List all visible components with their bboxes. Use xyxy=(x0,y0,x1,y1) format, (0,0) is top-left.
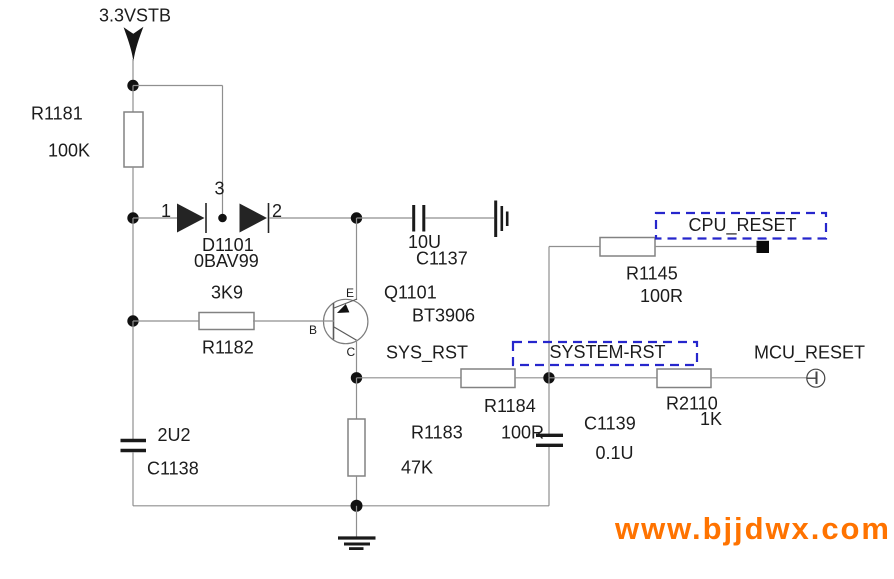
wire corner to R1145 xyxy=(549,246,600,248)
svg-text:47K: 47K xyxy=(401,458,433,478)
wire node D to C1138 xyxy=(132,321,134,439)
svg-text:C1137: C1137 xyxy=(416,249,468,269)
wire D1101 cathode to node C xyxy=(269,217,357,219)
svg-text:100R: 100R xyxy=(640,286,683,306)
svg-text:R1182: R1182 xyxy=(202,338,254,358)
svg-text:CPU_RESET: CPU_RESET xyxy=(689,215,797,236)
wire node A to R1181 xyxy=(132,86,134,113)
node B junction dot xyxy=(127,212,138,223)
wire R1183 to ground node xyxy=(356,476,358,506)
transistor Q1101 xyxy=(324,299,368,344)
ground bottom xyxy=(338,538,376,549)
svg-text:BT3906: BT3906 xyxy=(412,306,475,326)
net label box SYSTEM-RST xyxy=(513,342,697,365)
svg-text:E: E xyxy=(346,286,354,300)
svg-text:SYSTEM-RST: SYSTEM-RST xyxy=(550,342,666,362)
capacitor C1139 xyxy=(536,435,563,445)
svg-text:100K: 100K xyxy=(48,141,90,161)
wire C1137 to ground xyxy=(426,217,495,219)
diode D1101A xyxy=(177,203,206,233)
svg-text:0BAV99: 0BAV99 xyxy=(194,251,259,271)
net label box CPU_RESET xyxy=(656,213,826,239)
resistor R1182 xyxy=(199,313,254,330)
svg-text:R1145: R1145 xyxy=(626,264,678,284)
wire node C to Q1101 emitter xyxy=(356,218,358,300)
wire to ground symbol xyxy=(356,506,358,537)
node D1101 pin3 dot xyxy=(218,214,227,223)
svg-text:1K: 1K xyxy=(700,409,722,429)
svg-text:C: C xyxy=(347,345,356,359)
node D junction dot xyxy=(127,315,138,326)
wire node F up to R1145 xyxy=(548,247,550,378)
CPU_RESET terminal square xyxy=(757,241,770,253)
wire R1145 to CPU_RESET terminal xyxy=(655,246,757,248)
port MCU_RESET xyxy=(807,369,825,387)
wire R1182 to Q1101 base xyxy=(253,320,334,322)
wire Q1101 collector to node E xyxy=(356,340,358,378)
wire node F to R2110 xyxy=(549,377,657,379)
ground node junction dot xyxy=(351,500,363,512)
svg-text:MCU_RESET: MCU_RESET xyxy=(754,343,865,364)
resistor R1181 xyxy=(124,112,143,167)
wire node E to R1183 xyxy=(356,378,358,419)
resistor R2110 xyxy=(657,369,711,388)
svg-text:Q1101: Q1101 xyxy=(384,283,437,303)
svg-text:C1139: C1139 xyxy=(584,414,636,434)
node C junction dot xyxy=(351,212,362,223)
wire node D to R1182 xyxy=(133,320,199,322)
wire node C to C1137 xyxy=(357,217,413,219)
svg-text:3K9: 3K9 xyxy=(211,283,243,303)
wire pin3 branch down to D1101 pin 3 xyxy=(222,86,224,216)
capacitor C1138 xyxy=(121,441,147,451)
wire R2110 to MCU_RESET port xyxy=(711,377,807,379)
wire node A to pin3 branch xyxy=(133,85,223,87)
svg-text:1: 1 xyxy=(161,201,171,221)
svg-text:R1181: R1181 xyxy=(31,104,83,124)
wire C1139 to bottom rail xyxy=(548,447,550,506)
capacitor C1137 xyxy=(414,205,424,232)
svg-text:SYS_RST: SYS_RST xyxy=(386,343,468,364)
wire C1138 to bottom rail xyxy=(132,452,134,506)
wire node E to R1184 xyxy=(357,377,462,379)
ground right of C1137 xyxy=(496,201,508,238)
svg-text:B: B xyxy=(309,323,317,337)
svg-text:3.3VSTB: 3.3VSTB xyxy=(99,6,171,26)
wire node B to D1101 anode xyxy=(133,217,178,219)
svg-text:R1184: R1184 xyxy=(484,396,536,416)
svg-text:100R: 100R xyxy=(501,423,544,443)
svg-text:0.1U: 0.1U xyxy=(596,443,634,463)
wire node B to node D xyxy=(132,218,134,321)
node F junction dot xyxy=(543,372,554,383)
wire R1184 to node F xyxy=(515,377,549,379)
svg-text:www.bjjdwx.com: www.bjjdwx.com xyxy=(614,511,891,546)
svg-text:R1183: R1183 xyxy=(411,423,463,443)
svg-text:C1138: C1138 xyxy=(147,459,199,479)
diode D1101B xyxy=(240,203,269,233)
resistor R1183 xyxy=(348,419,365,476)
wire node F to C1139 xyxy=(548,378,550,434)
resistor R1145 xyxy=(600,238,655,257)
svg-text:3: 3 xyxy=(215,179,225,199)
node A junction dot xyxy=(127,80,138,91)
wire R1181 to node B xyxy=(132,167,134,218)
power flag 3.3VSTB xyxy=(124,27,144,62)
node E junction dot xyxy=(351,372,362,383)
svg-text:2U2: 2U2 xyxy=(158,425,191,445)
resistor R1184 xyxy=(461,369,515,388)
bottom rail wire xyxy=(133,505,549,507)
wire power flag to node A xyxy=(132,59,134,83)
